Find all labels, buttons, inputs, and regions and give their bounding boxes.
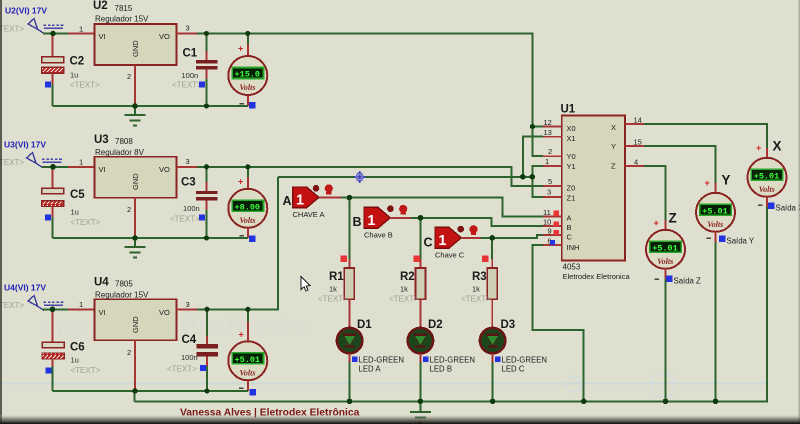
junction dots 5V rail	[520, 174, 535, 180]
pin 3 U4 (VO)	[177, 300, 198, 309]
voltmeter +5.01 (U4)	[228, 310, 267, 396]
wire switch C to R3	[491, 238, 493, 259]
svg-text:3: 3	[186, 24, 190, 33]
pin 1 U4	[68, 300, 95, 309]
regulator U4 7805	[94, 277, 177, 341]
svg-text:C2: C2	[70, 56, 85, 68]
pin 13 X1	[543, 128, 562, 137]
svg-text:1u: 1u	[71, 356, 79, 365]
svg-text:15: 15	[634, 137, 642, 146]
op-amp U1 4053 body	[561, 104, 631, 281]
svg-text:+: +	[705, 178, 710, 188]
svg-text:R3: R3	[472, 271, 487, 283]
wire Z output	[644, 166, 666, 230]
pin 10 B	[543, 217, 562, 226]
svg-text:Z1: Z1	[567, 194, 576, 203]
svg-text:VI: VI	[99, 32, 106, 41]
svg-text:4: 4	[634, 157, 638, 166]
svg-text:C: C	[567, 233, 573, 242]
svg-text:LED A: LED A	[359, 365, 382, 374]
wire +5V distribution	[278, 176, 532, 178]
svg-text:1: 1	[367, 213, 375, 229]
svg-text:GND: GND	[131, 173, 140, 190]
pin 15 Y	[625, 137, 644, 146]
voltmeter +8.00	[228, 167, 267, 242]
svg-text:Volts: Volts	[239, 368, 255, 377]
svg-text:Y1: Y1	[567, 162, 576, 171]
svg-text:C6: C6	[70, 342, 85, 354]
LED D3	[480, 319, 547, 401]
svg-text:3: 3	[547, 188, 551, 197]
junction dots switch nets	[347, 195, 495, 241]
svg-text:B: B	[353, 215, 362, 229]
svg-text:7808: 7808	[115, 137, 133, 146]
svg-text:1u: 1u	[71, 208, 79, 217]
ground circuit 2	[125, 238, 146, 257]
svg-text:+8.00: +8.00	[235, 202, 261, 212]
svg-text:C4: C4	[182, 334, 197, 346]
wire INH to ground	[533, 245, 584, 401]
pin 9 C	[543, 227, 562, 236]
wire X output	[644, 124, 767, 158]
svg-text:100n: 100n	[181, 353, 198, 362]
svg-text:100n: 100n	[182, 71, 199, 80]
svg-text:Chave B: Chave B	[364, 231, 393, 240]
LED D2	[408, 319, 475, 401]
pin 5 Z0	[543, 177, 562, 186]
svg-text:2: 2	[127, 348, 131, 357]
regulator U3 7808	[94, 134, 177, 198]
svg-text:<TEXT>: <TEXT>	[389, 295, 419, 304]
svg-text:14: 14	[634, 115, 642, 124]
svg-text:A: A	[567, 214, 572, 223]
voltmeter Y +5.01	[696, 173, 755, 246]
svg-text:VO: VO	[159, 32, 170, 41]
svg-text:TEXT>: TEXT>	[0, 301, 24, 310]
regulator U2 7815	[93, 0, 177, 65]
svg-text:X: X	[773, 139, 782, 154]
svg-text:Saída Z: Saída Z	[674, 277, 702, 286]
svg-text:1k: 1k	[472, 285, 480, 294]
svg-text:Saída X: Saída X	[776, 204, 800, 213]
svg-text:CHAVE A: CHAVE A	[293, 210, 325, 219]
credit text	[180, 408, 360, 419]
wire terminal to U4 pin 1	[43, 308, 68, 310]
capacitor C1	[172, 34, 218, 106]
wire Y meter to ground rail	[715, 242, 717, 401]
svg-text:Z: Z	[669, 211, 677, 226]
voltmeter X +5.01	[748, 139, 800, 213]
wire X1 branch	[523, 137, 543, 177]
wire +15V rail	[197, 34, 543, 157]
svg-text:A: A	[283, 194, 292, 208]
svg-text:<TEXT>: <TEXT>	[167, 365, 197, 374]
mouse cursor	[301, 277, 310, 292]
wire global ground rail	[135, 400, 768, 402]
svg-text:12: 12	[544, 118, 552, 127]
svg-text:4053: 4053	[563, 263, 581, 272]
svg-text:<TEXT>: <TEXT>	[172, 81, 202, 90]
svg-text:13: 13	[544, 128, 552, 137]
svg-text:VO: VO	[159, 165, 170, 174]
wire switch C to pin 9	[461, 235, 543, 238]
pin 1 U3	[68, 158, 95, 167]
svg-text:1: 1	[79, 25, 83, 34]
svg-text:D1: D1	[357, 319, 372, 331]
switch CHAVE C	[424, 225, 478, 259]
svg-text:7805: 7805	[115, 280, 133, 289]
svg-text:C5: C5	[70, 189, 85, 201]
svg-text:7815: 7815	[115, 4, 133, 13]
svg-text:<TEXT>: <TEXT>	[71, 366, 101, 375]
svg-text:Volts: Volts	[707, 220, 723, 229]
svg-text:U1: U1	[561, 104, 576, 116]
svg-text:1: 1	[545, 157, 549, 166]
voltmeter Z +5.01	[646, 211, 701, 286]
wire terminal to U2 pin 1	[43, 33, 68, 35]
capacitor C5	[42, 168, 101, 238]
wire rail 3 to global ground	[134, 391, 136, 401]
svg-text:<TEXT>: <TEXT>	[70, 81, 100, 90]
junction dots rail 2	[50, 164, 250, 241]
svg-text:U2: U2	[93, 0, 108, 12]
svg-text:Volts: Volts	[239, 83, 255, 92]
svg-text:LED-GREEN: LED-GREEN	[430, 356, 476, 365]
pin 3 U2 (VO)	[177, 24, 198, 34]
capacitor C2	[42, 35, 101, 106]
svg-text:Z0: Z0	[567, 184, 576, 193]
resistor R1	[318, 256, 354, 328]
pin 1 Y1	[543, 157, 562, 166]
wire X meter to ground rail	[766, 207, 768, 401]
pin 2 Y0	[543, 147, 562, 156]
svg-text:Volts: Volts	[239, 216, 255, 225]
wire +5V rail up to logic	[197, 177, 278, 309]
svg-text:1: 1	[438, 233, 446, 249]
svg-text:+5.01: +5.01	[235, 355, 261, 365]
wire ground rail 2	[53, 237, 248, 239]
pin 1 U2	[68, 25, 95, 34]
pin 4 Z	[625, 157, 644, 166]
pin 2 U2 (GND)	[127, 65, 135, 106]
pin 3 Z1	[543, 188, 562, 197]
svg-text:2: 2	[548, 147, 552, 156]
svg-text:U4(VI) 17V: U4(VI) 17V	[4, 283, 46, 293]
svg-text:+: +	[239, 330, 244, 340]
svg-text:<TEXT>: <TEXT>	[71, 218, 101, 227]
wire switch A to R1	[348, 198, 350, 259]
svg-text:INH: INH	[567, 243, 580, 252]
svg-text:Volts: Volts	[657, 257, 673, 266]
input terminal U4(VI)	[0, 283, 63, 311]
svg-text:Y0: Y0	[567, 152, 576, 161]
svg-text:TEXT>: TEXT>	[0, 25, 24, 34]
svg-text:C3: C3	[181, 177, 196, 189]
wire terminal to U3 pin 1	[42, 166, 68, 168]
svg-text:1u: 1u	[70, 71, 78, 80]
svg-text:1k: 1k	[329, 285, 337, 294]
svg-text:GND: GND	[131, 316, 140, 333]
svg-text:2: 2	[127, 72, 131, 81]
wire ground rail 1	[53, 105, 248, 107]
svg-text:X: X	[611, 123, 616, 132]
wire Y1 / Z1 branch	[532, 166, 543, 197]
svg-text:+5.01: +5.01	[754, 171, 780, 181]
svg-text:+15.0: +15.0	[235, 70, 261, 80]
wire +8V rail to Z0	[197, 167, 543, 186]
resistor R3	[461, 255, 497, 328]
LED D1	[337, 319, 404, 401]
svg-text:D2: D2	[428, 319, 443, 331]
pin 3 U3 (VO)	[177, 157, 198, 167]
junction dots ground rail	[347, 399, 719, 405]
svg-text:U2(VI) 17V: U2(VI) 17V	[5, 6, 47, 16]
ground main	[410, 401, 431, 422]
svg-text:C1: C1	[183, 48, 198, 60]
svg-text:+: +	[756, 143, 761, 153]
switch CHAVE A	[283, 184, 333, 219]
junction dots rail 1	[50, 31, 535, 129]
capacitor C3	[170, 167, 218, 238]
svg-text:11: 11	[543, 208, 551, 217]
svg-text:+: +	[238, 44, 243, 54]
pin 6 INH	[543, 236, 562, 245]
svg-text:X1: X1	[567, 134, 576, 143]
svg-text:VI: VI	[99, 165, 106, 174]
svg-text:Y: Y	[611, 142, 616, 151]
wire ground rail 3	[53, 390, 248, 392]
svg-text:TEXT>: TEXT>	[0, 158, 24, 167]
svg-text:R1: R1	[329, 271, 344, 283]
svg-text:X0: X0	[567, 124, 576, 133]
wire switch A to pin 11	[319, 198, 543, 217]
svg-text:10: 10	[543, 217, 551, 226]
ground circuit 1	[125, 106, 146, 125]
svg-text:LED-GREEN: LED-GREEN	[502, 356, 548, 365]
pin 2 U4 (GND)	[127, 340, 135, 391]
svg-text:Regulador 15V: Regulador 15V	[95, 291, 149, 300]
svg-text:B: B	[567, 223, 572, 232]
svg-text:Regulador 15V: Regulador 15V	[95, 15, 149, 24]
svg-text:C: C	[424, 236, 433, 250]
capacitor C4	[167, 310, 218, 391]
wire Y output	[644, 146, 716, 193]
wire switch B to R2	[420, 218, 422, 259]
svg-text:+: +	[238, 177, 243, 187]
capacitor C6	[42, 311, 101, 391]
svg-text:GND: GND	[131, 40, 140, 57]
input terminal U3(VI)	[0, 140, 62, 168]
svg-text:1: 1	[79, 300, 83, 309]
svg-text:+: +	[654, 218, 659, 228]
svg-text:LED-GREEN: LED-GREEN	[359, 356, 405, 365]
svg-text:Regulador 8V: Regulador 8V	[95, 148, 145, 157]
svg-text:3: 3	[186, 157, 190, 166]
svg-text:VO: VO	[159, 308, 170, 317]
watermark ISIS Professional	[0, 313, 768, 398]
pin 12 X0	[543, 118, 562, 127]
svg-text:5: 5	[548, 177, 552, 186]
svg-text:D3: D3	[501, 319, 516, 331]
svg-text:VI: VI	[99, 308, 106, 317]
pin 11 A	[543, 208, 562, 217]
svg-text:Chave C: Chave C	[435, 251, 465, 260]
svg-text:Volts: Volts	[759, 185, 775, 194]
svg-text:1: 1	[296, 193, 304, 209]
wire Z meter to ground rail	[665, 279, 667, 401]
svg-text:U3: U3	[94, 134, 109, 146]
wire switch B to pin 10	[390, 218, 543, 226]
svg-text:Eletrodex Eletronica: Eletrodex Eletronica	[563, 272, 631, 281]
voltmeter +15.0	[228, 34, 267, 108]
svg-text:Saída Y: Saída Y	[727, 237, 755, 246]
switch CHAVE B	[353, 205, 408, 240]
svg-text:+5.01: +5.01	[702, 206, 728, 216]
svg-text:LED C: LED C	[502, 365, 525, 374]
svg-text:100n: 100n	[183, 204, 200, 213]
svg-text:R2: R2	[400, 271, 415, 283]
svg-text:<TEXT>: <TEXT>	[461, 295, 491, 304]
svg-text:U4: U4	[94, 277, 109, 289]
svg-text:Z: Z	[611, 162, 616, 171]
svg-text:Y: Y	[722, 173, 731, 188]
svg-text:2: 2	[127, 205, 131, 214]
svg-text:3: 3	[186, 300, 190, 309]
junction dots rail 3	[50, 307, 251, 394]
svg-text:9: 9	[548, 227, 552, 236]
origin marker	[354, 171, 366, 183]
svg-text:U3(VI) 17V: U3(VI) 17V	[4, 140, 46, 150]
pin 14 X	[625, 115, 644, 124]
resistor R2	[389, 256, 426, 328]
svg-text:+5.01: +5.01	[652, 243, 678, 253]
svg-text:1k: 1k	[400, 285, 408, 294]
svg-text:<TEXT>: <TEXT>	[318, 295, 348, 304]
pin 2 U3 (GND)	[127, 198, 135, 238]
wire X0 branch	[533, 126, 544, 128]
svg-text:LED B: LED B	[430, 365, 453, 374]
svg-text:1: 1	[79, 158, 83, 167]
svg-text:<TEXT>: <TEXT>	[170, 215, 200, 224]
input terminal U2(VI)	[0, 6, 63, 34]
